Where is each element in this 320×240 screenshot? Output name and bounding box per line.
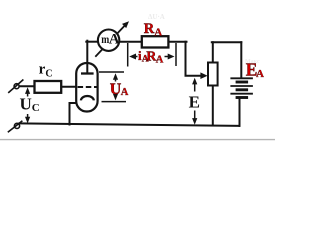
svg-text:U: U [20,95,32,114]
svg-text:R: R [144,21,155,37]
svg-text:A: A [156,54,164,65]
svg-text:A: A [109,32,120,48]
svg-text:C: C [32,102,40,114]
svg-text:A: A [121,87,129,98]
svg-text:C: C [45,68,52,79]
svg-text:ΔU·А: ΔU·А [148,13,165,21]
svg-text:A: A [256,68,264,80]
svg-text:E: E [189,92,200,111]
svg-text:A: A [154,26,162,38]
